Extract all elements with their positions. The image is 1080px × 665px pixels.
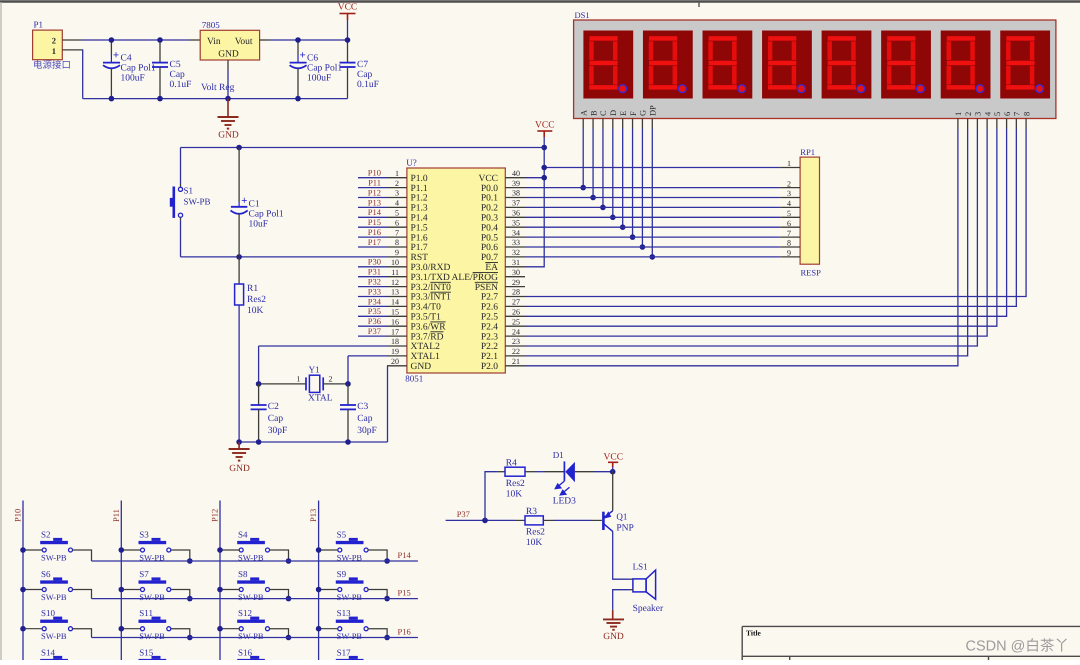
svg-text:30pF: 30pF [357, 426, 377, 436]
capacitor C4 [110, 40, 112, 55]
svg-text:0.1uF: 0.1uF [170, 80, 192, 90]
svg-text:Q1: Q1 [616, 512, 627, 522]
wire [358, 296, 387, 298]
junction [384, 635, 390, 641]
svg-text:Y1: Y1 [309, 365, 320, 375]
pin 1 P1.0 [387, 177, 407, 179]
wire LED to VCC node [575, 471, 594, 473]
svg-text:SW-PB: SW-PB [139, 592, 165, 602]
svg-text:GND: GND [229, 464, 250, 474]
svg-text:6: 6 [787, 219, 791, 228]
capacitor C7 [347, 40, 349, 63]
svg-text:2: 2 [787, 179, 791, 188]
svg-text:14: 14 [391, 298, 399, 307]
pin 22 P2.1 [505, 355, 525, 357]
svg-text:5: 5 [787, 209, 791, 218]
svg-text:9: 9 [395, 248, 399, 257]
pin 17 P3.7/RD [387, 335, 407, 337]
svg-text:Volt Reg: Volt Reg [201, 83, 235, 93]
svg-text:P14: P14 [368, 207, 382, 217]
svg-text:7: 7 [787, 229, 791, 238]
wire XTAL1 to crystal [348, 355, 387, 357]
pin 35 P0.4 [505, 226, 525, 228]
wire RST rail [181, 256, 388, 258]
wire [358, 315, 387, 317]
pin 7805 GND [227, 60, 229, 70]
junction [119, 626, 125, 632]
switch S10 [40, 608, 72, 641]
pin 26 P2.5 [505, 315, 525, 317]
svg-text:P3.3/INT1: P3.3/INT1 [411, 293, 452, 303]
svg-text:Title: Title [746, 629, 762, 638]
svg-text:25: 25 [512, 317, 520, 326]
wire Q1 emitter to VCC [612, 472, 614, 511]
wire row P15 [92, 598, 418, 600]
crystal Y1 [259, 383, 306, 385]
svg-text:+: + [241, 195, 247, 207]
svg-text:15: 15 [391, 308, 399, 317]
pin 4 P1.3 [387, 206, 407, 208]
svg-text:18: 18 [391, 337, 399, 346]
wire [525, 129, 977, 347]
svg-text:26: 26 [512, 308, 520, 317]
wire column P11 [120, 501, 122, 661]
svg-text:7: 7 [1013, 112, 1022, 116]
svg-text:2: 2 [964, 112, 973, 116]
svg-text:12: 12 [391, 278, 399, 287]
svg-text:VCC: VCC [478, 174, 498, 184]
svg-text:17: 17 [391, 327, 399, 336]
svg-text:28: 28 [512, 288, 520, 297]
svg-text:P0.7: P0.7 [481, 253, 498, 263]
svg-text:D1: D1 [553, 450, 564, 460]
7-seg digit 6 [881, 31, 931, 99]
wire [358, 197, 387, 199]
svg-text:P1.4: P1.4 [411, 214, 428, 224]
svg-text:P0.0: P0.0 [481, 184, 498, 194]
pin 15 P3.5/T1 [387, 315, 407, 317]
svg-text:10: 10 [391, 258, 399, 267]
pin 27 P2.6 [505, 305, 525, 307]
svg-text:P37: P37 [457, 509, 470, 519]
svg-text:P13: P13 [308, 509, 318, 522]
svg-text:R4: R4 [506, 458, 517, 468]
switch S4 [237, 530, 269, 563]
svg-text:P35: P35 [368, 306, 381, 316]
wire [358, 325, 387, 327]
wire P0.4 row [525, 226, 780, 228]
wire Q1 collector to speaker [613, 531, 629, 579]
svg-text:11: 11 [391, 268, 399, 277]
wire up to R4 [485, 472, 497, 521]
pin 13 P3.3/INT1 [387, 296, 407, 298]
svg-text:34: 34 [512, 228, 520, 237]
wire [358, 206, 387, 208]
svg-text:CSDN @白茶丫: CSDN @白茶丫 [966, 638, 1069, 655]
wire [612, 129, 614, 218]
wire [319, 589, 338, 591]
pin 25 P2.4 [505, 325, 525, 327]
wire [73, 550, 92, 561]
wire [525, 129, 968, 356]
svg-text:P12: P12 [368, 187, 381, 197]
capacitor C6 [297, 40, 299, 55]
svg-text:30pF: 30pF [268, 426, 288, 436]
switch S15 [139, 648, 171, 665]
svg-text:P0.4: P0.4 [481, 223, 498, 233]
svg-text:4: 4 [395, 199, 399, 208]
svg-text:Cap Pol1: Cap Pol1 [307, 64, 342, 74]
svg-text:XTAL2: XTAL2 [411, 342, 441, 352]
svg-text:P2.2: P2.2 [481, 342, 498, 352]
svg-text:8: 8 [1022, 112, 1031, 116]
wire [602, 129, 604, 208]
svg-text:SW-PB: SW-PB [238, 592, 264, 602]
svg-text:SW-PB: SW-PB [139, 631, 165, 641]
svg-text:GND: GND [603, 632, 624, 642]
svg-text:P33: P33 [368, 286, 381, 296]
svg-text:P11: P11 [111, 509, 121, 522]
pin 34 P0.5 [505, 236, 525, 238]
pin 5 P1.4 [387, 216, 407, 218]
svg-text:3: 3 [974, 112, 983, 116]
junction [649, 254, 655, 260]
capacitor C5 [159, 40, 161, 63]
svg-text:P36: P36 [368, 316, 381, 326]
ground GND speaker [612, 610, 614, 620]
svg-text:P10: P10 [368, 168, 381, 178]
svg-text:S3: S3 [139, 530, 149, 540]
wire [73, 590, 92, 599]
switch S7 [139, 569, 171, 602]
svg-text:32: 32 [512, 248, 520, 257]
wire [525, 129, 987, 337]
svg-text:RST: RST [411, 253, 429, 263]
junction [316, 626, 322, 632]
junction [316, 587, 322, 593]
wire P0.2 row [525, 206, 780, 208]
wire [632, 129, 634, 238]
svg-text:P1.5: P1.5 [411, 223, 428, 233]
pin P1-1 [62, 49, 82, 51]
svg-text:P2.0: P2.0 [481, 362, 498, 372]
svg-text:100uF: 100uF [307, 74, 331, 84]
mcu U? 8051 [407, 168, 505, 373]
switch S12 [237, 608, 269, 641]
svg-text:P2.7: P2.7 [481, 293, 498, 303]
wire [23, 628, 42, 630]
wire P0.0 row [525, 187, 780, 189]
pin RP1-2 [780, 187, 800, 189]
svg-text:1: 1 [954, 112, 963, 116]
capacitor C3 [347, 384, 349, 405]
svg-text:C1: C1 [249, 200, 260, 210]
svg-text:G: G [639, 110, 648, 116]
pin RP1-5 [780, 216, 800, 218]
wire [73, 629, 92, 638]
pin 37 P0.2 [505, 206, 525, 208]
svg-text:P1.3: P1.3 [411, 204, 428, 214]
svg-text:C6: C6 [307, 54, 318, 64]
svg-text:S6: S6 [41, 569, 51, 579]
wire GND pin down [386, 365, 389, 367]
svg-text:SW-PB: SW-PB [41, 631, 67, 641]
junction [384, 558, 390, 564]
svg-text:XTAL: XTAL [308, 394, 333, 404]
display DS1 [574, 20, 1056, 119]
wire [358, 286, 387, 288]
svg-text:38: 38 [512, 189, 520, 198]
junction [187, 558, 193, 564]
svg-text:27: 27 [512, 298, 520, 307]
7-seg digit 7 [941, 31, 991, 99]
wire 7805 Vout to VCC node [260, 39, 270, 41]
junction [610, 215, 616, 221]
junction [20, 587, 26, 593]
svg-text:P16: P16 [398, 626, 411, 636]
pin 24 P2.3 [505, 335, 525, 337]
svg-text:C: C [599, 110, 608, 116]
pin 12 P3.2/INT0 [387, 286, 407, 288]
svg-text:2: 2 [395, 179, 399, 188]
svg-text:S12: S12 [238, 608, 252, 618]
pin 19 XTAL1 [387, 355, 407, 357]
svg-text:P0.6: P0.6 [481, 243, 498, 253]
svg-text:19: 19 [391, 347, 399, 356]
wire [23, 549, 42, 551]
svg-text:8: 8 [787, 239, 791, 248]
junction [256, 381, 262, 387]
svg-text:SW-PB: SW-PB [337, 592, 363, 602]
svg-text:F: F [629, 111, 638, 116]
junction [610, 469, 616, 475]
svg-text:EA: EA [485, 263, 498, 273]
switch S3 [139, 530, 171, 563]
svg-text:9: 9 [787, 249, 791, 258]
svg-text:C3: C3 [357, 402, 368, 412]
junction [590, 195, 596, 201]
wire [525, 129, 1016, 307]
svg-text:31: 31 [512, 258, 520, 267]
svg-text:0.1uF: 0.1uF [357, 80, 379, 90]
svg-text:35: 35 [512, 218, 520, 227]
svg-text:2: 2 [329, 375, 333, 384]
junction [620, 224, 626, 230]
svg-text:E: E [619, 111, 628, 116]
svg-text:P3.6/WR: P3.6/WR [411, 322, 447, 332]
junction [187, 635, 193, 641]
junction [109, 96, 115, 102]
svg-text:P3.1/TXD: P3.1/TXD [411, 273, 450, 283]
svg-text:S8: S8 [238, 569, 248, 579]
wire P0.3 row [525, 216, 780, 218]
pin 36 P0.3 [505, 216, 525, 218]
junction [217, 547, 223, 553]
resistor R1 [238, 257, 240, 284]
svg-text:P1.1: P1.1 [411, 184, 428, 194]
svg-text:U?: U? [406, 158, 417, 168]
7-seg digit 4 [762, 31, 812, 99]
svg-text:XTAL1: XTAL1 [411, 352, 441, 362]
wire [358, 335, 387, 337]
pin 28 P2.7 [505, 296, 525, 298]
svg-text:P2.3: P2.3 [481, 332, 498, 342]
svg-text:P0.1: P0.1 [481, 194, 498, 204]
wire [121, 589, 140, 591]
svg-text:P12: P12 [210, 509, 220, 522]
7-seg digit 5 [822, 31, 872, 99]
svg-text:P31: P31 [368, 267, 381, 277]
svg-text:P37: P37 [368, 326, 381, 336]
svg-text:23: 23 [512, 337, 520, 346]
svg-text:P3.5/T1: P3.5/T1 [411, 313, 442, 323]
pin 2 P1.1 [387, 187, 407, 189]
pin RP1-8 [780, 246, 800, 248]
wire S1 to RST rail [180, 218, 182, 221]
svg-text:P2.1: P2.1 [481, 352, 498, 362]
wire [358, 177, 387, 179]
wire [270, 629, 289, 638]
pin 40 VCC [505, 177, 525, 179]
title block [742, 626, 1080, 660]
svg-text:GND: GND [411, 362, 432, 372]
wire top rail to VCC [181, 147, 545, 149]
junction [119, 547, 125, 553]
svg-text:Cap: Cap [268, 414, 284, 424]
svg-text:P16: P16 [368, 227, 381, 237]
junction [187, 596, 193, 602]
wire [358, 266, 387, 268]
pin 21 P2.0 [505, 365, 525, 367]
wire [651, 129, 653, 257]
wire [525, 129, 1026, 297]
svg-text:10K: 10K [526, 538, 543, 548]
svg-text:10uF: 10uF [249, 220, 269, 230]
switch S13 [336, 608, 368, 641]
svg-text:B: B [589, 110, 598, 116]
svg-text:C5: C5 [170, 60, 181, 70]
wire [641, 129, 643, 248]
pin 9 RST [387, 256, 407, 258]
wire speaker return [629, 589, 633, 591]
pin RP1-3 [780, 197, 800, 199]
svg-text:Vout: Vout [235, 37, 253, 47]
svg-text:电源接口: 电源接口 [33, 60, 71, 71]
svg-text:13: 13 [391, 288, 399, 297]
wire R3 to Q1 base [543, 519, 553, 521]
svg-text:RP1: RP1 [800, 147, 815, 157]
wire P0.5 row [525, 236, 780, 238]
pin 7 P1.6 [387, 236, 407, 238]
pin RP1-9 [780, 256, 800, 258]
svg-text:1: 1 [297, 375, 301, 384]
speaker LS1 [633, 579, 646, 592]
svg-text:VCC: VCC [535, 120, 555, 130]
svg-text:P2.4: P2.4 [481, 322, 498, 332]
wire column P10 [22, 501, 24, 661]
svg-text:P1.6: P1.6 [411, 233, 428, 243]
wire [319, 628, 338, 630]
svg-text:P2.5: P2.5 [481, 313, 498, 323]
resistor R3 [525, 516, 543, 525]
wire row P16 [92, 637, 418, 639]
wire P1 pin1 down to ground rail [81, 50, 84, 99]
switch S9 [336, 569, 368, 602]
wire column P13 [318, 501, 320, 661]
wire [121, 549, 140, 551]
svg-text:P1: P1 [34, 20, 44, 30]
wire chip VCC pin to vertical [525, 177, 544, 179]
svg-text:P34: P34 [368, 296, 382, 306]
svg-text:SW-PB: SW-PB [41, 592, 67, 602]
svg-text:P3.4/T0: P3.4/T0 [411, 303, 442, 313]
svg-text:+: + [299, 50, 305, 62]
junction [640, 244, 646, 250]
resistor pack RP1 [800, 157, 819, 264]
wire [171, 590, 190, 599]
svg-text:R1: R1 [247, 284, 258, 294]
svg-text:P2.6: P2.6 [481, 303, 498, 313]
wire [525, 129, 958, 366]
wire R1 to ground rail [238, 305, 240, 442]
switch S5 [336, 530, 368, 563]
svg-text:Vin: Vin [207, 37, 221, 47]
wire [270, 550, 289, 561]
capacitor C1 [238, 148, 240, 203]
svg-text:29: 29 [512, 278, 520, 287]
svg-text:SW-PB: SW-PB [238, 631, 264, 641]
wire row P14 [92, 560, 418, 562]
svg-text:+: + [113, 50, 119, 62]
wire [220, 549, 239, 551]
pin RP1-4 [780, 206, 800, 208]
svg-text:Cap: Cap [170, 70, 186, 80]
svg-text:6: 6 [1003, 112, 1012, 116]
junction [630, 234, 636, 240]
switch S1 [180, 184, 182, 187]
wire VCC to rail [347, 20, 349, 40]
svg-text:LS1: LS1 [633, 562, 648, 572]
wire [358, 226, 387, 228]
pin 39 P0.0 [505, 187, 525, 189]
svg-text:S4: S4 [238, 530, 248, 540]
transistor Q1 [602, 512, 605, 530]
capacitor C2 [258, 384, 260, 405]
junction [316, 547, 322, 553]
wire [171, 550, 190, 561]
wire [358, 187, 387, 189]
resistor R4 [505, 467, 525, 476]
svg-text:P11: P11 [368, 178, 381, 188]
svg-text:Cap Pol1: Cap Pol1 [249, 210, 284, 220]
svg-text:P3.2/INT0: P3.2/INT0 [411, 283, 452, 293]
svg-text:36: 36 [512, 209, 520, 218]
7-seg digit 3 [703, 31, 753, 99]
pin RP1-1 [780, 167, 800, 169]
svg-text:C7: C7 [357, 60, 368, 70]
junction [20, 626, 26, 632]
svg-text:A: A [579, 110, 588, 116]
pin 30 ALE/PROG [505, 276, 525, 278]
svg-text:P1.0: P1.0 [411, 174, 428, 184]
pin 8 P1.7 [387, 246, 407, 248]
junction [236, 439, 242, 445]
svg-text:P14: P14 [398, 550, 412, 560]
pin RP1-6 [780, 226, 800, 228]
svg-text:P0.3: P0.3 [481, 214, 498, 224]
7-seg digit 8 [1000, 31, 1050, 99]
junction [217, 626, 223, 632]
